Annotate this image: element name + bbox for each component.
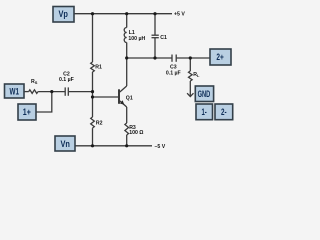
svg-text:L1: L1 <box>129 30 135 36</box>
svg-text:RL: RL <box>193 72 200 78</box>
svg-text:1+: 1+ <box>23 107 31 117</box>
svg-text:1-: 1- <box>201 107 207 118</box>
svg-text:Vn: Vn <box>60 139 69 149</box>
svg-text:2+: 2+ <box>216 52 224 62</box>
svg-text:Q1: Q1 <box>126 96 133 102</box>
svg-text:100 Ω: 100 Ω <box>129 130 143 136</box>
svg-text:–5 V: –5 V <box>155 144 166 150</box>
svg-text:100 µH: 100 µH <box>128 36 145 42</box>
svg-text:R2: R2 <box>96 120 103 126</box>
svg-text:GND: GND <box>198 89 211 100</box>
svg-text:R1: R1 <box>95 64 102 70</box>
svg-text:Vp: Vp <box>58 9 67 19</box>
svg-text:RS: RS <box>31 79 38 85</box>
svg-text:C1: C1 <box>160 35 167 41</box>
svg-text:W1: W1 <box>10 86 20 96</box>
svg-text:+5 V: +5 V <box>174 11 185 17</box>
svg-text:0.1 µF: 0.1 µF <box>166 70 181 76</box>
svg-text:0.1 µF: 0.1 µF <box>59 77 74 83</box>
svg-text:2-: 2- <box>221 107 227 117</box>
